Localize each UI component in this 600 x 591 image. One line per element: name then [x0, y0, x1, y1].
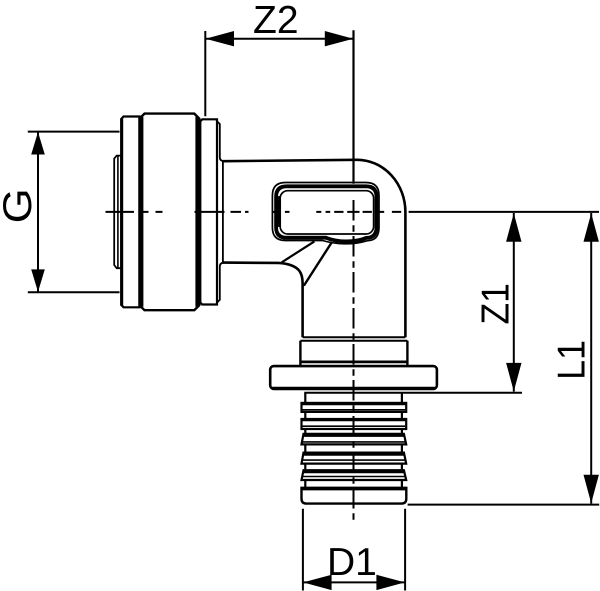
- cone silhouette line (shallow): [282, 241, 315, 262]
- body C thick right edge: [195, 117, 199, 307]
- window inner thin outline: [280, 191, 373, 234]
- dimension D1 right arrow: [376, 575, 405, 590]
- dimension D1 line: [303, 581, 405, 583]
- step ring left edge: [299, 341, 301, 366]
- rib 5: [302, 470, 407, 480]
- dimension G extension lines: [28, 131, 120, 133]
- dimension Z2 right arrow: [325, 31, 354, 46]
- svg-text:D1: D1: [327, 541, 377, 584]
- step ring right edge: [406, 341, 408, 366]
- svg-text:Z1: Z1: [473, 283, 517, 324]
- shoulder line + Z1 bottom extension line: [304, 392, 522, 394]
- dimension Z2 line: [205, 38, 353, 40]
- rib 4: [302, 453, 407, 464]
- dimension L1 bottom arrow: [584, 475, 599, 504]
- elbow right edge: [404, 212, 407, 337]
- dimension Z1 bottom arrow: [506, 363, 521, 392]
- dimension L1 top arrow: [584, 213, 599, 242]
- horizontal axis extension line to Z1/L1 dimensions: [409, 211, 599, 213]
- dimension G top arrow: [31, 132, 45, 155]
- dimension Z1 top arrow: [506, 213, 521, 242]
- cone silhouette line (steep): [304, 242, 332, 286]
- elbow body bottom line + fillet into vertical pipe: [223, 263, 303, 338]
- union nut ring B: [121, 117, 139, 308]
- body C thick left edge: [140, 117, 144, 307]
- dimension D1 left arrow: [303, 575, 332, 590]
- dimension G bottom arrow: [31, 269, 45, 292]
- ring B thick left edge: [120, 118, 123, 306]
- dimension G line: [37, 132, 39, 293]
- pipe step ring top line: [300, 340, 407, 342]
- barb core right edge: [401, 393, 403, 487]
- union nut body C: [140, 114, 200, 311]
- window left extra contour line: [278, 196, 280, 227]
- rib 1: [302, 403, 407, 412]
- dimension Z2 left arrow: [206, 31, 235, 46]
- dimension L1 bottom extension line: [408, 504, 600, 506]
- pipe chamfer line: [303, 336, 406, 338]
- horizontal centerline (dash-dot, axis of union connection): [106, 211, 402, 213]
- window outer thin outline (with bottom dip): [272, 183, 379, 244]
- elbow corner arc: [357, 160, 405, 212]
- dimension Z1 line: [513, 213, 515, 392]
- svg-text:L1: L1: [549, 340, 593, 380]
- dimension D1 extension line (right): [404, 509, 406, 591]
- ring D right corner line: [217, 122, 224, 303]
- svg-text:G: G: [0, 188, 40, 223]
- end collar: [302, 488, 407, 504]
- neck edge line: [222, 161, 224, 262]
- flange: [270, 366, 437, 389]
- rib 3: [302, 434, 407, 445]
- flange thick bottom edge: [272, 387, 436, 390]
- dimension L1 line: [590, 213, 592, 504]
- step ring inner line: [300, 360, 407, 363]
- rib 2: [302, 419, 407, 429]
- window thick outline (with bottom dip): [276, 186, 376, 241]
- dimension Z2 extension line (left): [204, 31, 206, 116]
- vertical centerline dash-dot part: [353, 200, 355, 520]
- dimension D1 extension line (left): [302, 509, 304, 591]
- ring A inner line: [117, 156, 119, 268]
- vertical centerline (axis of lower pipe), solid upper part = Z2 extension: [352, 30, 354, 184]
- union nut ring A (outer washer edge): [114, 156, 121, 269]
- elbow body top line: [223, 160, 357, 161]
- svg-text:Z2: Z2: [253, 0, 299, 42]
- barb core left edge: [304, 393, 306, 487]
- union nut ring D: [200, 119, 217, 304]
